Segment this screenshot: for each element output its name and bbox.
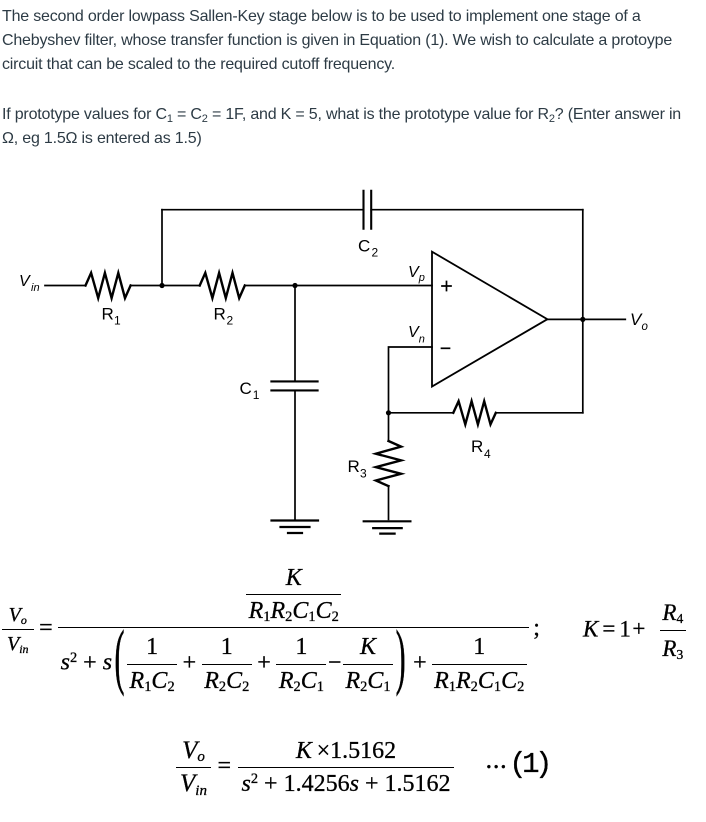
wire R4 to output vertical [496,412,583,414]
svg-text:in: in [31,282,40,294]
wire op-amp - input to feedback node [389,347,433,413]
svg-text:o: o [642,321,649,333]
wire input Vin to R1 [45,285,86,287]
node junction at R2/C1 [292,283,297,288]
wire node down to R3 [388,413,390,441]
svg-text:1: 1 [114,314,121,328]
label R1 [102,305,122,328]
K equation [583,601,686,661]
node junction at R3/R4/Vn [386,410,391,415]
wire R2 to op-amp + input [245,285,432,287]
svg-text:R: R [348,457,360,476]
label C1 [240,379,260,402]
circuit schematic SVG [0,0,706,560]
paragraph 1 [2,5,706,77]
op-amp + pin label [442,282,451,291]
capacitor C1 [271,381,317,390]
svg-text:R: R [471,437,483,456]
svg-text:C: C [240,379,252,398]
svg-text:n: n [419,334,425,346]
op-amp - pin label [442,347,450,349]
equation (1) [176,738,548,798]
wire op-amp output to Vo [547,318,625,320]
resistor R1 [86,273,131,298]
wire right vertical from top feedback to R4 [582,210,584,413]
svg-text:1: 1 [253,388,260,402]
wire R3 to ground [388,486,390,519]
wire R1 to R2 [131,285,200,287]
resistor R3 [376,441,401,486]
wire node to R4 [389,412,454,414]
wire node down to C1 [294,286,296,382]
transfer function equation [2,566,540,694]
svg-text:3: 3 [360,467,367,481]
resistor R4 [453,401,496,424]
svg-text:R: R [214,305,226,324]
label R2 [214,305,234,328]
svg-text:2: 2 [227,314,234,328]
svg-text:R: R [102,305,114,324]
label Vn [408,324,425,346]
wire top feedback right segment [371,209,583,211]
svg-text:2: 2 [372,246,379,260]
label C2 [358,236,379,259]
node junction at R1/R2/C2 [159,283,164,288]
label Vp [408,264,425,284]
wire top feedback left segment [162,209,364,211]
capacitor C2 [364,191,372,229]
wire C1 to ground [294,391,296,520]
svg-text:V: V [19,273,31,290]
label Vo [630,310,649,333]
resistor R2 [200,273,245,298]
op-amp U1 [432,252,547,387]
svg-text:4: 4 [484,447,491,461]
ground (right, under R3) [364,521,411,533]
svg-text:C: C [358,236,370,255]
label R3 [348,457,368,481]
label Vin [19,273,40,294]
label R4 [471,437,491,461]
node junction at output [580,317,585,322]
paragraph 2 [2,103,706,151]
ground (left, under C1) [272,521,319,534]
svg-text:p: p [418,272,425,284]
wire node up to top feedback [161,210,163,286]
